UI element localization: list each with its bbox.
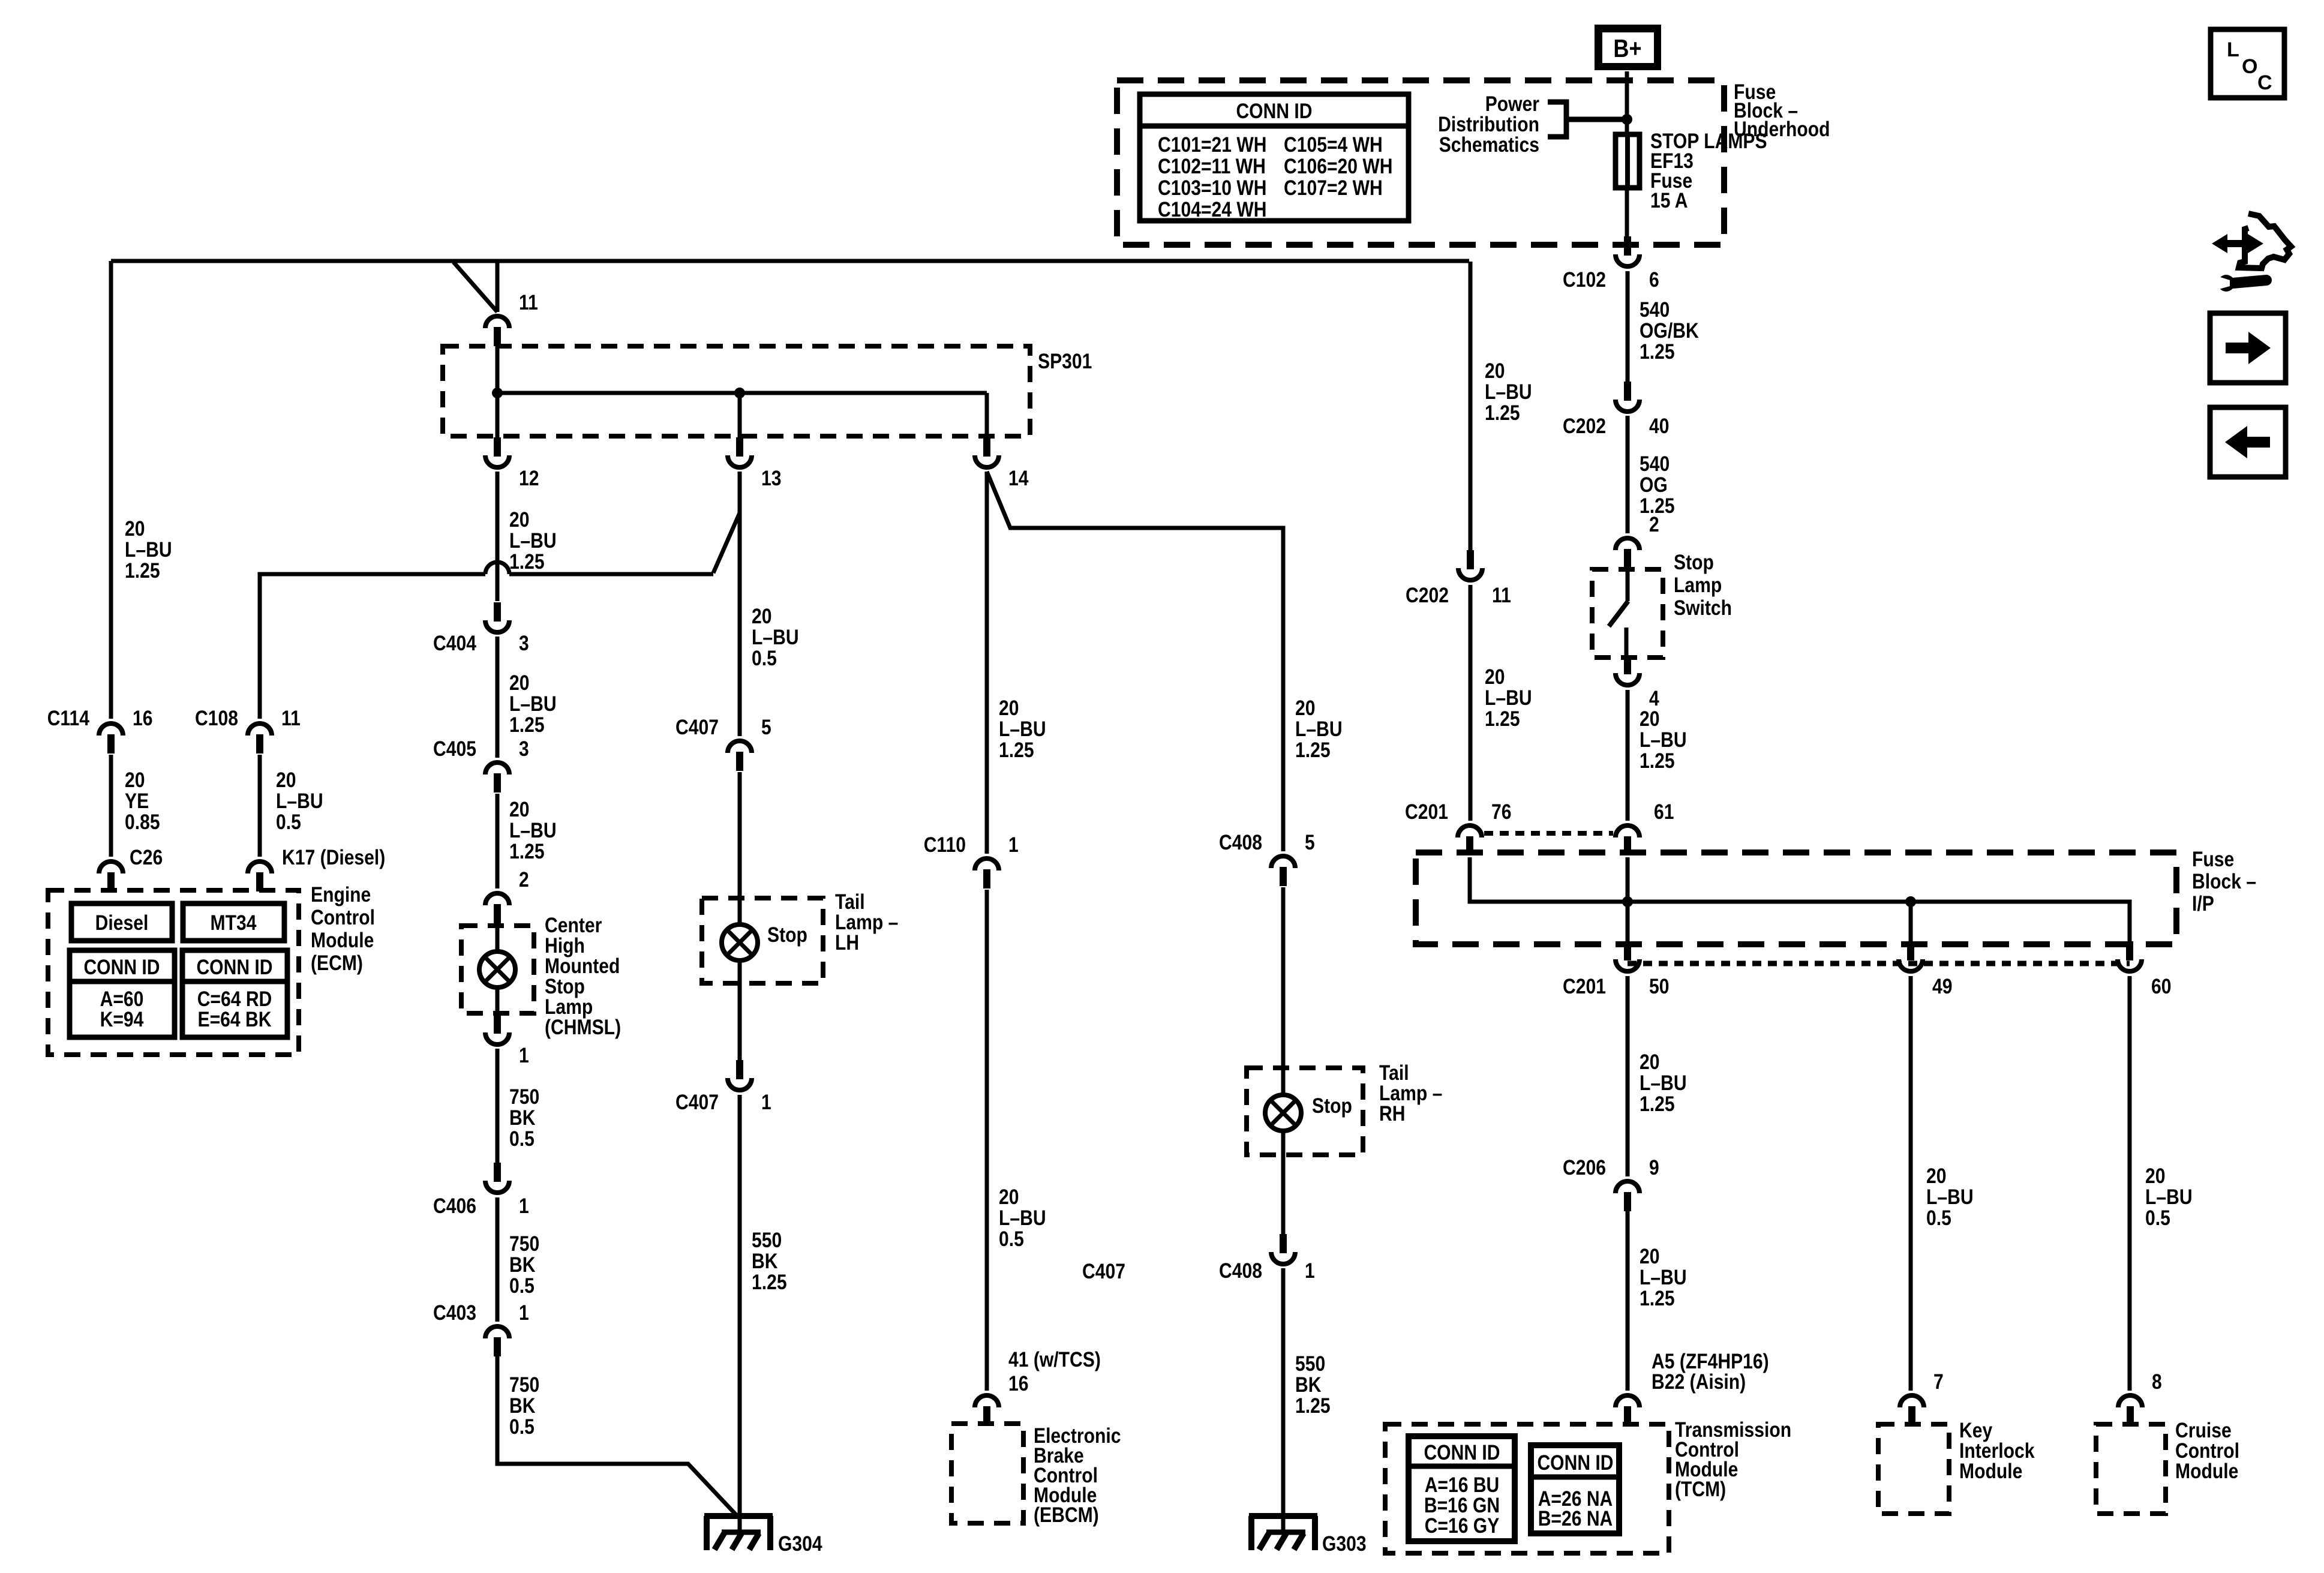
connector C201 pin 49 bbox=[1899, 941, 1953, 998]
svg-text:750: 750 bbox=[509, 1373, 539, 1397]
svg-text:L–BU: L–BU bbox=[1640, 728, 1687, 752]
svg-text:CONN ID: CONN ID bbox=[1424, 1441, 1500, 1464]
svg-text:C403: C403 bbox=[433, 1301, 476, 1325]
stop lamp switch bbox=[1592, 551, 1732, 659]
wire inside fuse block I/P bbox=[1470, 857, 2130, 942]
connector C201 pin 50 bbox=[1563, 941, 1670, 998]
wire C201-49 to key interlock module bbox=[1909, 976, 1913, 1391]
junction node I/P at 49 branch bbox=[1905, 896, 1916, 907]
wire label 540 OG/BK 1.25 bbox=[1640, 298, 1699, 364]
svg-text:L–BU: L–BU bbox=[1640, 1266, 1687, 1289]
svg-text:0.85: 0.85 bbox=[125, 810, 160, 834]
wire rail drop to C114 bbox=[109, 261, 113, 719]
svg-text:20: 20 bbox=[1640, 1245, 1660, 1268]
junction node at fuse feed bbox=[1622, 114, 1632, 125]
svg-text:C102: C102 bbox=[1563, 268, 1606, 292]
ECM CONN ID table 2 bbox=[182, 950, 287, 1037]
svg-text:5: 5 bbox=[1305, 831, 1315, 854]
ground G304 bbox=[704, 1516, 822, 1556]
wire label 20 L-BU 0.5 (to C108) bbox=[276, 769, 323, 834]
wire C114 to C26 bbox=[109, 755, 113, 857]
svg-text:BK: BK bbox=[509, 1394, 536, 1418]
svg-text:BK: BK bbox=[509, 1106, 536, 1130]
svg-text:C202: C202 bbox=[1406, 584, 1449, 607]
svg-text:2: 2 bbox=[519, 868, 529, 891]
svg-text:0.5: 0.5 bbox=[752, 647, 777, 670]
svg-text:20: 20 bbox=[1485, 359, 1505, 383]
svg-text:Module: Module bbox=[1959, 1460, 2022, 1483]
svg-text:C105=4 WH: C105=4 WH bbox=[1284, 133, 1383, 157]
svg-text:B+: B+ bbox=[1613, 34, 1641, 62]
CHMSL label bbox=[545, 914, 621, 1039]
connector pin 7 at key interlock bbox=[1900, 1370, 1944, 1425]
wire C202 to stop lamp switch bbox=[1626, 416, 1630, 533]
svg-text:I/P: I/P bbox=[2192, 892, 2214, 915]
svg-text:20: 20 bbox=[509, 798, 530, 821]
svg-text:15 A: 15 A bbox=[1650, 189, 1688, 212]
svg-text:Control: Control bbox=[311, 906, 375, 929]
wire label 20 L-BU 1.25 (C206 to TCM) bbox=[1640, 1245, 1687, 1310]
svg-text:0.5: 0.5 bbox=[276, 810, 301, 834]
wire splice bus bbox=[497, 346, 987, 443]
svg-text:1: 1 bbox=[1008, 833, 1019, 857]
svg-text:3: 3 bbox=[519, 737, 529, 761]
svg-text:C: C bbox=[2257, 71, 2272, 94]
wire label 20 L-BU 1.25 (C405 to CHMSL) bbox=[509, 798, 557, 863]
svg-text:CONN ID: CONN ID bbox=[196, 956, 272, 979]
wire C202-11 drop from rail bbox=[1469, 262, 1473, 550]
connector C26 at ECM bbox=[99, 846, 163, 891]
svg-text:41 (w/TCS): 41 (w/TCS) bbox=[1008, 1348, 1101, 1371]
TCM label bbox=[1675, 1418, 1791, 1501]
fuse EF13 STOP LAMPS 15A bbox=[1616, 130, 1767, 212]
connector C114 pin 16 bbox=[47, 707, 153, 754]
svg-text:20: 20 bbox=[2145, 1164, 2166, 1188]
cruise control module dashed box bbox=[2096, 1424, 2166, 1514]
wire tail lamp LH to C407-1 bbox=[738, 960, 742, 1060]
svg-text:SP301: SP301 bbox=[1038, 350, 1092, 373]
ECM variant box Diesel bbox=[71, 903, 172, 941]
svg-text:Stop: Stop bbox=[1674, 551, 1714, 574]
dotted connector line C201 bottom bbox=[1628, 961, 2130, 966]
engine control module dashed box bbox=[48, 890, 299, 1055]
connector C206 pin 9 bbox=[1563, 1156, 1659, 1211]
svg-text:L–BU: L–BU bbox=[2145, 1185, 2193, 1209]
wire C110 to EBCM bbox=[985, 890, 989, 1391]
junction node I/P at 61 wire bbox=[1622, 896, 1633, 907]
connector pin 2 at switch bbox=[1616, 513, 1659, 568]
svg-text:Module: Module bbox=[2175, 1460, 2238, 1483]
svg-text:1.25: 1.25 bbox=[1485, 707, 1520, 731]
svg-text:Schematics: Schematics bbox=[1439, 133, 1539, 157]
wire C202-11 to C201-76 bbox=[1469, 585, 1473, 821]
svg-text:Stop: Stop bbox=[1312, 1094, 1352, 1118]
stop bulb RH bbox=[1265, 1094, 1352, 1131]
connector C201 pin 61 bbox=[1616, 800, 1674, 855]
wire label 750 BK 0.5 (C403 to G304) bbox=[509, 1373, 539, 1439]
wire fuse to C102 bbox=[1625, 190, 1629, 238]
svg-text:14: 14 bbox=[1008, 467, 1029, 490]
tail lamp LH label bbox=[835, 890, 898, 954]
ECM CONN ID table 1 bbox=[70, 950, 175, 1037]
wire label 550 BK 1.25 (RH to G303) bbox=[1295, 1352, 1331, 1418]
svg-text:1: 1 bbox=[519, 1044, 529, 1067]
connector C406 pin 1 bbox=[433, 1163, 529, 1218]
svg-text:(CHMSL): (CHMSL) bbox=[545, 1016, 621, 1039]
svg-text:L–BU: L–BU bbox=[1485, 380, 1532, 404]
svg-text:CONN ID: CONN ID bbox=[1236, 100, 1312, 123]
connector C404 pin 3 bbox=[433, 602, 529, 655]
svg-text:CONN ID: CONN ID bbox=[83, 956, 160, 979]
svg-text:11: 11 bbox=[1492, 584, 1511, 607]
wire C408 to tail lamp RH bbox=[1281, 887, 1286, 1095]
svg-text:1.25: 1.25 bbox=[1640, 340, 1675, 364]
svg-text:L–BU: L–BU bbox=[276, 789, 323, 813]
svg-text:L: L bbox=[2227, 38, 2239, 61]
svg-text:1.25: 1.25 bbox=[1295, 1394, 1331, 1418]
wire crossover hop bbox=[485, 562, 509, 574]
svg-text:49: 49 bbox=[1932, 975, 1953, 998]
svg-text:C108: C108 bbox=[195, 707, 238, 730]
svg-text:20: 20 bbox=[1485, 665, 1505, 689]
wire label 550 BK 1.25 (LH to G304) bbox=[752, 1229, 787, 1294]
svg-text:RH: RH bbox=[1379, 1102, 1406, 1125]
connector C403 pin 1 bbox=[433, 1301, 529, 1356]
svg-text:C103=10 WH: C103=10 WH bbox=[1158, 176, 1267, 200]
svg-text:C104=24 WH: C104=24 WH bbox=[1158, 198, 1267, 221]
wire C406 to C403 bbox=[496, 1197, 500, 1322]
svg-text:BK: BK bbox=[509, 1253, 536, 1277]
svg-text:1: 1 bbox=[1305, 1259, 1315, 1283]
forward arrow button bbox=[2210, 313, 2286, 383]
svg-text:CONN ID: CONN ID bbox=[1537, 1451, 1613, 1475]
connector at EBCM bbox=[975, 1395, 999, 1407]
CONN ID table (underhood) bbox=[1140, 94, 1409, 221]
svg-text:L–BU: L–BU bbox=[1485, 686, 1532, 710]
fuse block underhood label bbox=[1734, 80, 1830, 141]
svg-text:16: 16 bbox=[133, 707, 153, 730]
svg-text:C201: C201 bbox=[1405, 800, 1448, 824]
svg-text:C407: C407 bbox=[675, 1091, 719, 1114]
svg-text:MT34: MT34 bbox=[211, 911, 257, 935]
wire label 20 L-BU 0.5 (to key interlock) bbox=[1926, 1164, 1974, 1230]
connector K17 at ECM bbox=[248, 846, 385, 891]
svg-text:1.25: 1.25 bbox=[509, 713, 545, 737]
wire rail merge diagonal bbox=[454, 262, 497, 312]
svg-text:20: 20 bbox=[125, 769, 145, 792]
svg-text:B22 (Aisin): B22 (Aisin) bbox=[1652, 1370, 1746, 1394]
svg-text:OG: OG bbox=[1640, 473, 1668, 497]
svg-text:C405: C405 bbox=[433, 737, 476, 761]
svg-text:Engine: Engine bbox=[311, 883, 371, 906]
TCM pin labels A5 B22 bbox=[1652, 1350, 1769, 1394]
ECM label bbox=[311, 883, 375, 975]
wire label 20 L-BU 1.25 (14 to C408) bbox=[1295, 697, 1343, 762]
svg-text:12: 12 bbox=[519, 467, 539, 490]
svg-text:13: 13 bbox=[761, 467, 782, 490]
svg-text:1.25: 1.25 bbox=[1295, 739, 1331, 762]
svg-text:BK: BK bbox=[1295, 1373, 1322, 1397]
tail lamp LH dashed box bbox=[702, 898, 823, 983]
LOC navigation box bbox=[2211, 29, 2284, 98]
svg-text:20: 20 bbox=[1926, 1164, 1947, 1188]
svg-text:Module: Module bbox=[311, 929, 374, 952]
svg-text:L–BU: L–BU bbox=[999, 1206, 1046, 1230]
svg-text:20: 20 bbox=[509, 508, 530, 532]
svg-text:(EBCM): (EBCM) bbox=[1034, 1503, 1099, 1527]
wire C404 to C405 bbox=[496, 637, 500, 758]
wire C407 to tail lamp LH bbox=[738, 772, 742, 924]
svg-text:540: 540 bbox=[1640, 452, 1670, 476]
connector pin 8 at cruise control bbox=[2118, 1370, 2162, 1425]
key interlock module dashed box bbox=[1878, 1424, 1949, 1514]
connector pin 4 below switch bbox=[1616, 655, 1659, 710]
svg-text:C408: C408 bbox=[1219, 831, 1262, 854]
TCM CONN ID table 1 bbox=[1409, 1436, 1515, 1541]
wire B+ to fuse bbox=[1625, 71, 1629, 134]
wire label 20 L-BU 0.5 (to cruise control) bbox=[2145, 1164, 2193, 1230]
connector C108 pin 11 bbox=[195, 707, 301, 754]
junction node SP301 left bbox=[492, 388, 503, 398]
connector pin 12 from SP301 bbox=[485, 437, 539, 490]
svg-text:0.5: 0.5 bbox=[2145, 1206, 2170, 1230]
connector pin 14 from SP301 bbox=[975, 437, 1029, 490]
svg-text:G303: G303 bbox=[1322, 1532, 1367, 1556]
wire label 20 L-BU 0.5 (13 to C407) bbox=[752, 605, 799, 670]
wire label 20 L-BU 1.25 (C201-50 to C206) bbox=[1640, 1050, 1687, 1116]
wire pin 13 to C407 bbox=[738, 472, 742, 736]
svg-text:E=64 BK: E=64 BK bbox=[198, 1008, 272, 1031]
cruise control module label bbox=[2175, 1419, 2239, 1483]
centre high mounted stop lamp dashed box bbox=[461, 926, 534, 1013]
svg-text:1.25: 1.25 bbox=[509, 550, 545, 574]
svg-text:Lamp: Lamp bbox=[1674, 574, 1722, 597]
svg-text:(TCM): (TCM) bbox=[1675, 1478, 1726, 1501]
svg-text:1.25: 1.25 bbox=[1640, 1287, 1675, 1310]
svg-text:20: 20 bbox=[509, 671, 530, 695]
svg-text:2: 2 bbox=[1649, 513, 1659, 536]
svg-text:C202: C202 bbox=[1563, 415, 1606, 438]
TCM CONN ID table 2 bbox=[1531, 1445, 1619, 1533]
svg-text:1: 1 bbox=[519, 1301, 529, 1325]
svg-text:Fuse: Fuse bbox=[2192, 848, 2234, 871]
svg-text:C26: C26 bbox=[130, 846, 163, 869]
wire C403 to ground G304 bbox=[497, 1356, 737, 1516]
svg-text:50: 50 bbox=[1649, 975, 1670, 998]
fuse block I/P label bbox=[2192, 848, 2256, 915]
wire label 750 BK 0.5 (C406 to C403) bbox=[509, 1232, 539, 1298]
connector at TCM bbox=[1616, 1395, 1640, 1407]
svg-text:(ECM): (ECM) bbox=[311, 951, 363, 975]
svg-text:8: 8 bbox=[2152, 1370, 2162, 1394]
fuse block underhood dashed box bbox=[1117, 80, 1724, 245]
svg-text:C206: C206 bbox=[1563, 1156, 1606, 1179]
wire pin 14 branch to tail lamp RH bbox=[987, 472, 1283, 851]
EBCM pin labels 41 16 bbox=[1008, 1348, 1101, 1395]
svg-text:0.5: 0.5 bbox=[999, 1227, 1024, 1251]
svg-text:11: 11 bbox=[519, 291, 538, 314]
connector C201 pin 60 bbox=[2118, 941, 2172, 998]
svg-text:OG/BK: OG/BK bbox=[1640, 319, 1699, 343]
dotted connector line C201 top bbox=[1484, 831, 1613, 836]
svg-text:B=26 NA: B=26 NA bbox=[1538, 1507, 1613, 1530]
splice SP301 dashed box bbox=[443, 346, 1030, 436]
connector C102 pin 6 bbox=[1563, 236, 1659, 292]
svg-text:0.5: 0.5 bbox=[1926, 1206, 1951, 1230]
connector C405 pin 3 bbox=[433, 737, 529, 792]
connector pin 11 into SP301 bbox=[485, 291, 538, 346]
wire C405 to CHMSL bbox=[496, 794, 500, 888]
schematic navigation icon (arrow and wrench) bbox=[2212, 214, 2291, 292]
svg-text:20: 20 bbox=[125, 517, 145, 541]
stop bulb LH bbox=[722, 923, 807, 960]
svg-text:60: 60 bbox=[2151, 975, 2172, 998]
svg-text:L–BU: L–BU bbox=[1295, 718, 1343, 741]
svg-text:1.25: 1.25 bbox=[1485, 401, 1520, 425]
connector pin 2 at CHMSL bbox=[485, 868, 529, 923]
tail lamp RH label bbox=[1379, 1061, 1442, 1125]
svg-text:C404: C404 bbox=[433, 632, 476, 655]
svg-text:L–BU: L–BU bbox=[752, 626, 799, 649]
wire C201-50 to C206 bbox=[1626, 976, 1630, 1176]
svg-text:L–BU: L–BU bbox=[999, 718, 1046, 741]
svg-text:G304: G304 bbox=[778, 1532, 822, 1556]
svg-text:Switch: Switch bbox=[1674, 596, 1732, 620]
svg-text:1: 1 bbox=[761, 1091, 771, 1114]
key interlock module label bbox=[1959, 1419, 2035, 1483]
svg-text:550: 550 bbox=[752, 1229, 782, 1252]
wire label 750 BK 0.5 (CHMSL to C406) bbox=[509, 1085, 539, 1151]
connector C407 pin 5 bbox=[675, 716, 771, 771]
wire C108 to K17 bbox=[258, 755, 262, 857]
svg-text:C102=11 WH: C102=11 WH bbox=[1158, 155, 1266, 178]
svg-text:750: 750 bbox=[509, 1232, 539, 1256]
svg-text:C106=20 WH: C106=20 WH bbox=[1284, 155, 1393, 178]
svg-text:0.5: 0.5 bbox=[509, 1274, 535, 1298]
wire switch to C201 pin 61 bbox=[1626, 690, 1630, 821]
svg-text:1.25: 1.25 bbox=[509, 840, 545, 863]
svg-text:L–BU: L–BU bbox=[509, 692, 557, 716]
wire label 20 L-BU 1.25 (14 to C110) bbox=[999, 697, 1046, 762]
connector C407 pin 1 bbox=[675, 1060, 771, 1114]
svg-text:1.25: 1.25 bbox=[999, 739, 1034, 762]
connector C201 pin 76 bbox=[1405, 800, 1512, 855]
svg-text:C408: C408 bbox=[1219, 1259, 1262, 1283]
svg-text:C406: C406 bbox=[433, 1194, 476, 1218]
connector pin 13 from SP301 bbox=[728, 437, 782, 490]
connector C408 pin 5 bbox=[1219, 831, 1315, 886]
wire pin 13 branch to ECM bbox=[260, 472, 740, 719]
svg-text:Stop: Stop bbox=[767, 923, 807, 947]
wire pin 14 to C110 bbox=[985, 472, 989, 854]
svg-text:L–BU: L–BU bbox=[509, 819, 557, 842]
connector C202 pin 40 bbox=[1563, 382, 1670, 438]
tail lamp RH dashed box bbox=[1247, 1068, 1363, 1155]
svg-text:1.25: 1.25 bbox=[1640, 749, 1675, 773]
svg-text:20: 20 bbox=[999, 697, 1019, 720]
svg-text:C101=21 WH: C101=21 WH bbox=[1158, 133, 1267, 157]
battery feed terminal B+ bbox=[1595, 25, 1661, 70]
connector C202 pin 11 bbox=[1406, 550, 1511, 607]
svg-text:20: 20 bbox=[999, 1185, 1019, 1209]
svg-text:LH: LH bbox=[835, 931, 859, 954]
fuse block I/P dashed box bbox=[1416, 852, 2176, 944]
svg-text:C407: C407 bbox=[1082, 1260, 1125, 1283]
svg-text:20: 20 bbox=[1640, 1050, 1660, 1074]
svg-text:11: 11 bbox=[281, 707, 301, 730]
svg-text:C114: C114 bbox=[47, 707, 90, 730]
svg-text:1: 1 bbox=[519, 1194, 529, 1218]
wire C407-1 to ground G304 bbox=[738, 1095, 742, 1531]
wire label 20 L-BU 1.25 (C202-11 to C201-76) bbox=[1485, 665, 1532, 731]
wire label 20 L-BU 0.5 (C110 to EBCM) bbox=[999, 1185, 1046, 1251]
svg-text:C407: C407 bbox=[675, 716, 719, 739]
svg-text:3: 3 bbox=[519, 632, 529, 655]
svg-text:L–BU: L–BU bbox=[1926, 1185, 1974, 1209]
wire label 540 OG 1.25 bbox=[1640, 452, 1675, 518]
svg-text:Diesel: Diesel bbox=[95, 911, 149, 935]
wire label 20 YE 0.85 bbox=[125, 769, 160, 834]
CHMSL bulb bbox=[479, 923, 515, 1014]
transmission control module dashed box bbox=[1385, 1424, 1669, 1553]
wire CHMSL to C406 bbox=[496, 1049, 500, 1163]
wire C102 to C202 bbox=[1626, 271, 1630, 382]
wire C206 to TCM bbox=[1626, 1211, 1630, 1391]
svg-text:540: 540 bbox=[1640, 298, 1670, 322]
svg-text:K=94: K=94 bbox=[100, 1008, 144, 1031]
back arrow button bbox=[2210, 407, 2286, 477]
svg-text:20: 20 bbox=[1295, 697, 1316, 720]
svg-text:7: 7 bbox=[1933, 1370, 1944, 1394]
svg-text:5: 5 bbox=[761, 716, 771, 739]
svg-text:L–BU: L–BU bbox=[509, 529, 557, 553]
wire tail lamp RH to C408-1 bbox=[1281, 1131, 1286, 1234]
wire C408-1 to ground G303 bbox=[1281, 1268, 1286, 1531]
svg-text:BK: BK bbox=[752, 1250, 778, 1273]
svg-text:O: O bbox=[2242, 55, 2257, 78]
svg-text:1.25: 1.25 bbox=[125, 559, 160, 583]
svg-text:20: 20 bbox=[276, 769, 296, 792]
svg-text:76: 76 bbox=[1491, 800, 1512, 824]
svg-text:16: 16 bbox=[1008, 1372, 1029, 1395]
svg-text:1.25: 1.25 bbox=[1640, 1092, 1675, 1116]
svg-text:9: 9 bbox=[1649, 1156, 1659, 1179]
junction node SP301 centre bbox=[734, 388, 745, 398]
svg-text:L–BU: L–BU bbox=[1640, 1071, 1687, 1095]
wire rail to connector 11 bbox=[496, 261, 500, 312]
wire label 20 L-BU 1.25 (12 to C404) bbox=[509, 508, 557, 574]
svg-text:61: 61 bbox=[1654, 800, 1674, 824]
svg-text:550: 550 bbox=[1295, 1352, 1325, 1376]
svg-text:750: 750 bbox=[509, 1085, 539, 1109]
connector pin 1 below CHMSL bbox=[485, 1014, 529, 1067]
svg-text:L–BU: L–BU bbox=[125, 538, 172, 562]
svg-text:C110: C110 bbox=[924, 833, 966, 857]
svg-text:K17 (Diesel): K17 (Diesel) bbox=[282, 846, 385, 869]
connector C110 pin 1 bbox=[924, 833, 1019, 888]
wire top rail bbox=[111, 259, 1469, 263]
svg-text:0.5: 0.5 bbox=[509, 1415, 535, 1439]
svg-text:20: 20 bbox=[752, 605, 772, 628]
ground G303 bbox=[1249, 1516, 1367, 1556]
EBCM label bbox=[1034, 1424, 1121, 1527]
svg-text:0.5: 0.5 bbox=[509, 1127, 535, 1151]
svg-text:YE: YE bbox=[125, 789, 149, 813]
svg-text:C201: C201 bbox=[1563, 975, 1606, 998]
wire label 20 L-BU 1.25 (switch to C201) bbox=[1640, 707, 1687, 773]
wire pin 12 down bbox=[496, 472, 500, 601]
wire label 20 L-BU 1.25 (left drop) bbox=[125, 517, 172, 583]
